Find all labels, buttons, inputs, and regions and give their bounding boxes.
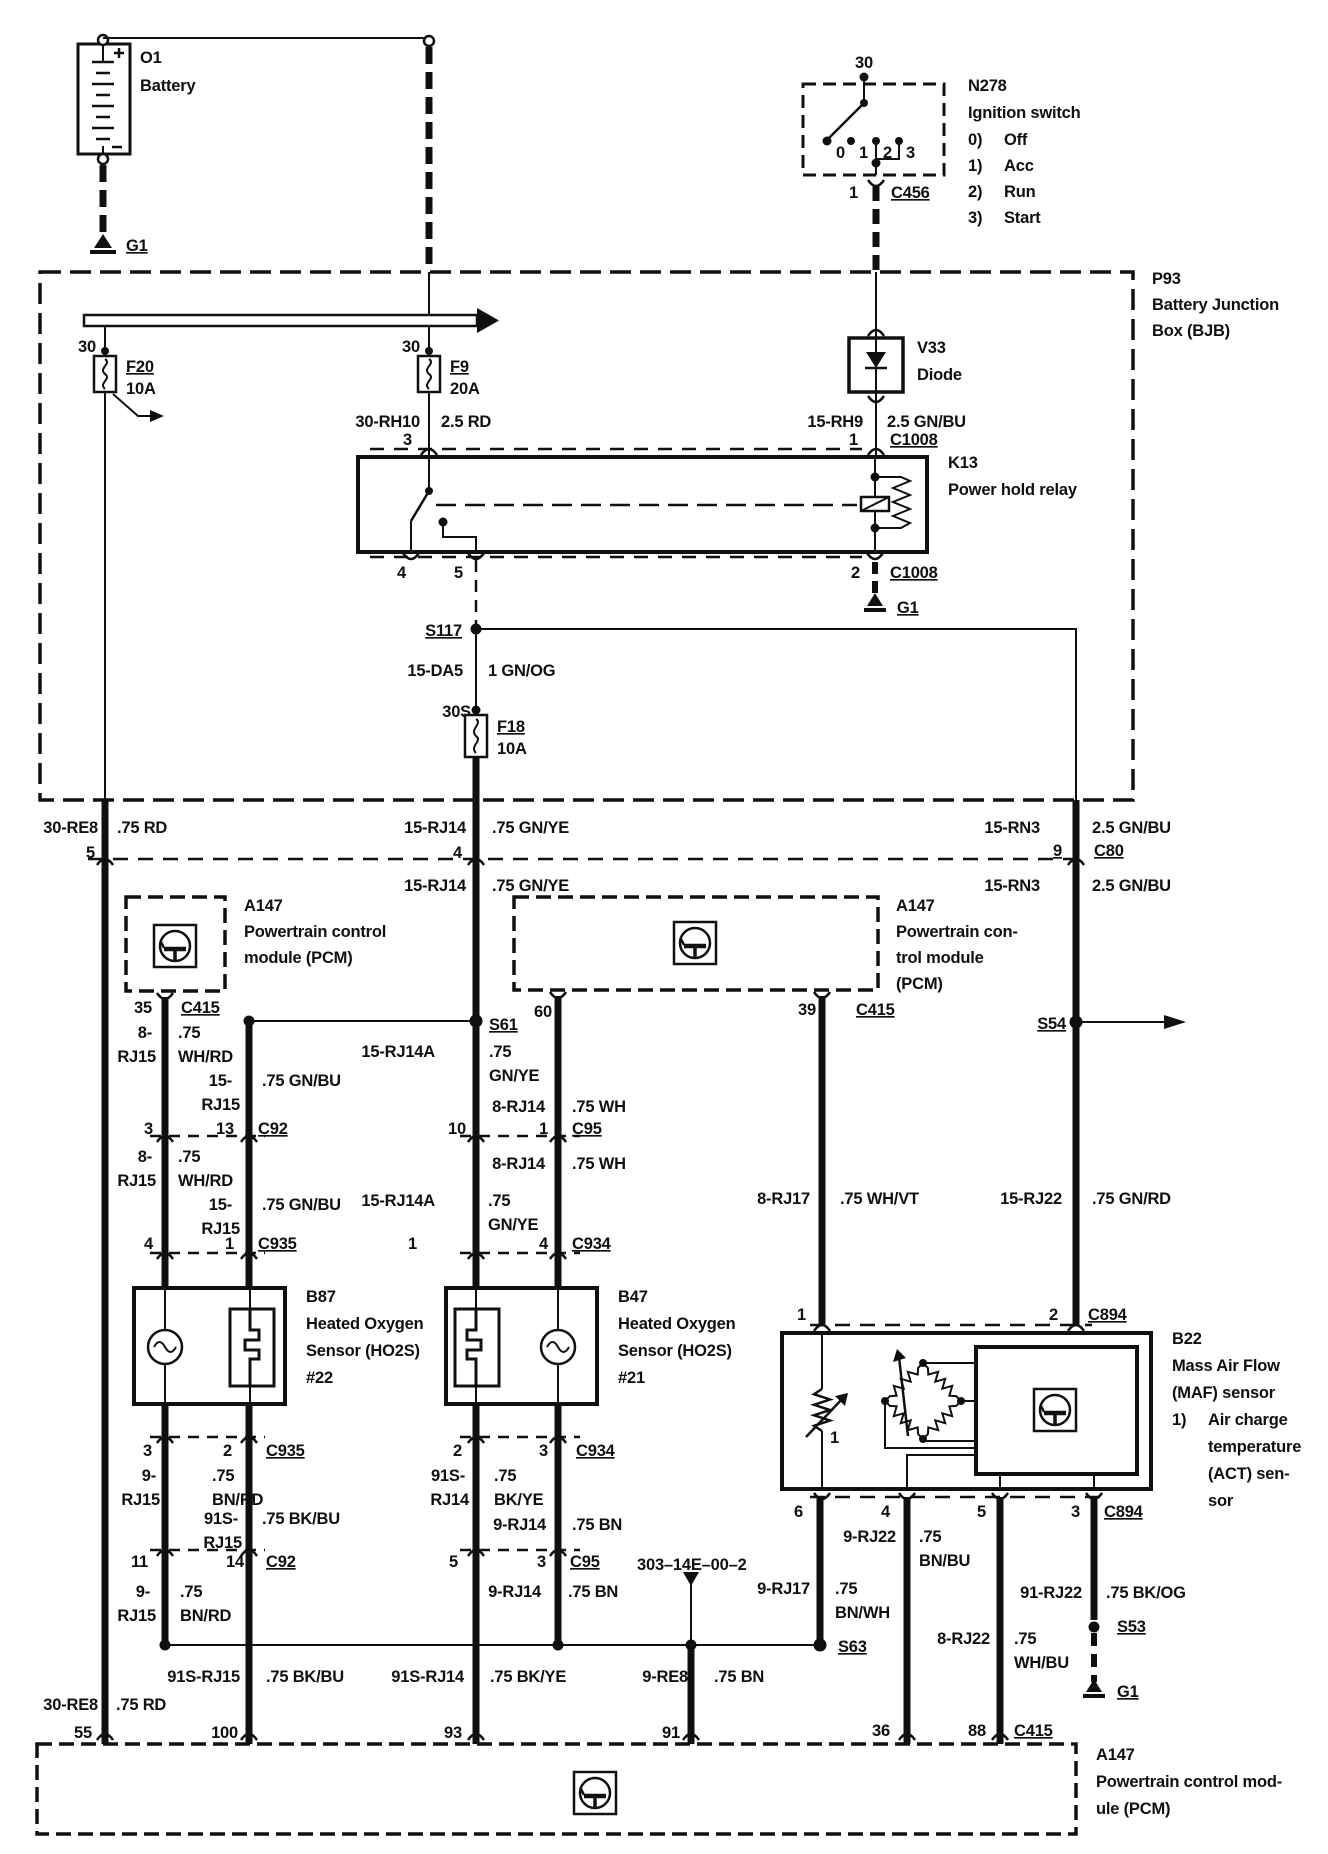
svg-text:BN/RD: BN/RD	[212, 1491, 264, 1509]
svg-text:C934: C934	[576, 1442, 616, 1460]
fuse F18	[465, 715, 487, 757]
svg-text:3: 3	[143, 1442, 152, 1460]
svg-text:.75: .75	[1014, 1630, 1036, 1648]
svg-text:N278: N278	[968, 77, 1007, 95]
wire 8-RJ15 .75 WH/RD	[162, 997, 169, 1288]
svg-text:.75: .75	[180, 1583, 202, 1601]
svg-text:A147: A147	[1096, 1746, 1135, 1764]
svg-text:WH/BU: WH/BU	[1014, 1654, 1069, 1672]
svg-text:C934: C934	[572, 1235, 612, 1253]
svg-text:35: 35	[134, 999, 152, 1017]
B87 AC source	[164, 1288, 166, 1331]
bridge resistors	[923, 1363, 961, 1401]
PCM A147 box 1	[126, 897, 225, 991]
svg-text:1: 1	[830, 1429, 839, 1447]
svg-text:WH/RD: WH/RD	[178, 1172, 233, 1190]
node 30S	[472, 706, 481, 715]
svg-text:1): 1)	[1172, 1411, 1186, 1429]
svg-text:3: 3	[539, 1442, 548, 1460]
svg-text:(ACT) sen-: (ACT) sen-	[1208, 1465, 1289, 1483]
svg-text:91S-: 91S-	[204, 1510, 238, 1528]
svg-text:2.5 GN/BU: 2.5 GN/BU	[1092, 877, 1171, 895]
wire 9-RJ17 .75 BN/WH	[817, 1497, 824, 1645]
svg-text:#21: #21	[618, 1369, 645, 1387]
wire F18 down	[473, 757, 480, 800]
svg-text:8-RJ22: 8-RJ22	[937, 1630, 990, 1648]
wire S117 to right	[476, 629, 1076, 800]
svg-text:.75 BK/YE: .75 BK/YE	[490, 1668, 566, 1686]
ground G1 relay	[872, 562, 878, 596]
relay switch	[425, 487, 433, 495]
wire 30-RH10 2.5 RD	[428, 392, 430, 457]
svg-text:20A: 20A	[450, 380, 480, 398]
splice S117	[471, 624, 482, 635]
relay coil	[874, 457, 876, 552]
svg-text:C415: C415	[181, 999, 220, 1017]
svg-text:C1008: C1008	[890, 431, 938, 449]
svg-text:.75: .75	[212, 1467, 234, 1485]
svg-text:91: 91	[662, 1724, 680, 1742]
svg-text:30-RH10: 30-RH10	[355, 413, 420, 431]
ground G1 battery	[94, 234, 112, 248]
svg-text:8-RJ14: 8-RJ14	[492, 1098, 546, 1116]
svg-text:.75: .75	[488, 1192, 510, 1210]
HO2S sensor B47	[446, 1288, 597, 1404]
ignition switch N278	[803, 84, 944, 175]
svg-text:88: 88	[968, 1722, 986, 1740]
svg-text:9-RJ22: 9-RJ22	[843, 1528, 896, 1546]
svg-text:15-: 15-	[209, 1072, 232, 1090]
node fuse F9 top	[428, 326, 430, 356]
svg-text:S54: S54	[1037, 1015, 1067, 1033]
svg-text:RJ14: RJ14	[430, 1491, 470, 1509]
svg-text:0): 0)	[968, 131, 982, 149]
svg-text:91S-: 91S-	[431, 1467, 465, 1485]
svg-text:C894: C894	[1088, 1306, 1128, 1324]
battery O1	[78, 35, 130, 164]
svg-text:30: 30	[402, 338, 420, 356]
svg-text:.75 BN: .75 BN	[572, 1516, 622, 1534]
svg-text:B47: B47	[618, 1288, 648, 1306]
svg-text:91S-RJ14: 91S-RJ14	[391, 1668, 465, 1686]
svg-text:6: 6	[794, 1503, 803, 1521]
svg-text:4: 4	[539, 1235, 549, 1253]
svg-text:.75 WH/VT: .75 WH/VT	[840, 1190, 919, 1208]
svg-text:1: 1	[797, 1306, 806, 1324]
svg-text:C415: C415	[1014, 1722, 1053, 1740]
svg-text:.75: .75	[178, 1148, 200, 1166]
svg-text:15-RN3: 15-RN3	[984, 877, 1040, 895]
svg-text:S61: S61	[489, 1016, 518, 1034]
svg-text:.75 GN/BU: .75 GN/BU	[262, 1196, 341, 1214]
svg-text:15-RH9: 15-RH9	[807, 413, 863, 431]
svg-text:0: 0	[836, 144, 845, 162]
svg-text:4: 4	[144, 1235, 154, 1253]
wire battery negative down	[100, 165, 107, 240]
svg-text:2: 2	[223, 1442, 232, 1460]
svg-text:9-RJ14: 9-RJ14	[493, 1516, 547, 1534]
svg-text:.75 WH: .75 WH	[572, 1155, 626, 1173]
svg-text:15-RJ22: 15-RJ22	[1000, 1190, 1062, 1208]
wire S53 to ground	[1091, 1633, 1097, 1682]
svg-text:C95: C95	[570, 1553, 600, 1571]
svg-text:15-RJ14A: 15-RJ14A	[361, 1192, 435, 1210]
connector C456 pin 1	[868, 180, 884, 186]
fuse F9	[418, 356, 440, 392]
svg-text:C415: C415	[856, 1001, 895, 1019]
wire 8-RJ22 .75 WH/BU	[997, 1497, 1004, 1744]
MAF pin4 link	[907, 1455, 976, 1489]
svg-text:BN/BU: BN/BU	[919, 1552, 970, 1570]
svg-text:.75 BK/BU: .75 BK/BU	[266, 1668, 344, 1686]
svg-text:RJ15: RJ15	[121, 1491, 160, 1509]
svg-text:Off: Off	[1004, 131, 1028, 149]
svg-text:Ignition switch: Ignition switch	[968, 104, 1081, 122]
svg-text:Sensor (HO2S): Sensor (HO2S)	[618, 1342, 732, 1360]
svg-text:C1008: C1008	[890, 564, 938, 582]
svg-text:Battery Junction: Battery Junction	[1152, 296, 1279, 314]
svg-text:8-: 8-	[138, 1024, 152, 1042]
svg-text:trol module: trol module	[896, 949, 984, 967]
svg-text:36: 36	[872, 1722, 890, 1740]
svg-text:9-RJ14: 9-RJ14	[488, 1583, 542, 1601]
svg-text:30: 30	[855, 54, 873, 72]
svg-text:O1: O1	[140, 49, 162, 67]
svg-text:100: 100	[211, 1724, 238, 1742]
svg-text:4: 4	[881, 1503, 891, 1521]
svg-text:15-DA5: 15-DA5	[407, 662, 463, 680]
svg-text:10A: 10A	[497, 740, 527, 758]
svg-text:5: 5	[454, 564, 463, 582]
svg-text:Powertrain con-: Powertrain con-	[896, 923, 1018, 941]
svg-text:2.5 GN/BU: 2.5 GN/BU	[1092, 819, 1171, 837]
svg-text:.75 BK/BU: .75 BK/BU	[262, 1510, 340, 1528]
wire 15-RJ15 .75 GN/BU	[246, 1021, 253, 1288]
svg-text:55: 55	[74, 1724, 92, 1742]
svg-text:C935: C935	[266, 1442, 305, 1460]
svg-text:B87: B87	[306, 1288, 336, 1306]
svg-text:303–14E–00–2: 303–14E–00–2	[637, 1556, 747, 1574]
PCM2 pin 39 C415	[814, 992, 830, 998]
svg-text:3): 3)	[968, 209, 982, 227]
svg-text:.75 GN/YE: .75 GN/YE	[492, 877, 569, 895]
PCM2 pin 60	[550, 992, 566, 998]
svg-text:8-RJ14: 8-RJ14	[492, 1155, 546, 1173]
svg-text:RJ15: RJ15	[117, 1607, 156, 1625]
svg-text:15-RN3: 15-RN3	[984, 819, 1040, 837]
svg-text:Sensor (HO2S): Sensor (HO2S)	[306, 1342, 420, 1360]
connector C80 row	[88, 858, 1085, 861]
wire 9-RE8 .75 BN	[688, 1645, 695, 1744]
svg-text:Acc: Acc	[1004, 157, 1034, 175]
MAF connector C894 bottom	[810, 1496, 1110, 1499]
svg-text:3: 3	[1071, 1503, 1080, 1521]
diode V33	[849, 338, 903, 392]
svg-text:BN/RD: BN/RD	[180, 1607, 232, 1625]
svg-text:Battery: Battery	[140, 77, 196, 95]
fuse F20	[94, 356, 116, 392]
svg-text:15-RJ14: 15-RJ14	[404, 819, 467, 837]
svg-text:Powertrain control: Powertrain control	[244, 923, 386, 941]
svg-text:C92: C92	[266, 1553, 296, 1571]
svg-text:10A: 10A	[126, 380, 156, 398]
svg-text:.75 BN: .75 BN	[568, 1583, 618, 1601]
svg-text:1: 1	[849, 184, 858, 202]
PCM1 pin 35 C415	[157, 993, 173, 999]
svg-text:9-RJ17: 9-RJ17	[757, 1580, 810, 1598]
wire 15-RH9 2.5 GN/BU	[875, 392, 877, 457]
svg-text:.75: .75	[489, 1043, 511, 1061]
svg-text:Heated Oxygen: Heated Oxygen	[618, 1315, 736, 1333]
svg-text:2: 2	[453, 1442, 462, 1460]
svg-text:BN/WH: BN/WH	[835, 1604, 890, 1622]
svg-text:.75 WH: .75 WH	[572, 1098, 626, 1116]
svg-text:RJ15: RJ15	[117, 1048, 156, 1066]
wire ignition to BJB	[873, 186, 880, 272]
wire 91-RJ22 .75 BK/OG	[1091, 1497, 1098, 1620]
svg-text:ule (PCM): ule (PCM)	[1096, 1800, 1170, 1818]
wire 9-RJ22 .75 BN/BU	[904, 1497, 911, 1744]
svg-text:9: 9	[1053, 842, 1062, 860]
svg-text:9-RE8: 9-RE8	[642, 1668, 688, 1686]
svg-text:.75: .75	[494, 1467, 516, 1485]
svg-text:2): 2)	[968, 183, 982, 201]
splice junction to S61	[244, 1016, 255, 1027]
svg-text:2: 2	[1049, 1306, 1058, 1324]
svg-text:4: 4	[453, 844, 463, 862]
svg-text:Start: Start	[1004, 209, 1041, 227]
svg-text:C894: C894	[1104, 1503, 1144, 1521]
svg-text:Heated Oxygen: Heated Oxygen	[306, 1315, 424, 1333]
svg-text:RJ15: RJ15	[201, 1096, 240, 1114]
wire battery feed down to BJB (dashed thick)	[426, 47, 433, 272]
ACT variable resistor	[821, 1333, 823, 1389]
svg-text:1: 1	[859, 144, 868, 162]
bus bar	[428, 272, 430, 315]
svg-text:F18: F18	[497, 718, 525, 736]
splice S61	[470, 1015, 483, 1028]
svg-text:sor: sor	[1208, 1492, 1234, 1510]
svg-text:Air charge: Air charge	[1208, 1411, 1288, 1429]
bridge connections	[923, 1362, 976, 1364]
wire 8-RJ14 .75 WH	[555, 996, 562, 1288]
svg-text:V33: V33	[917, 339, 946, 357]
svg-text:(MAF) sensor: (MAF) sensor	[1172, 1384, 1276, 1402]
wire 8-RJ17 .75 WH/VT	[819, 996, 826, 1325]
svg-text:1: 1	[225, 1235, 234, 1253]
relay linkage (dashed)	[436, 504, 857, 507]
svg-text:Diode: Diode	[917, 366, 962, 384]
splice S63 line	[165, 1644, 820, 1646]
svg-text:K13: K13	[948, 454, 978, 472]
svg-text:30-RE8: 30-RE8	[43, 819, 98, 837]
svg-text:15-: 15-	[209, 1196, 232, 1214]
PCM A147 box 3	[37, 1744, 1076, 1834]
svg-text:BK/YE: BK/YE	[494, 1491, 544, 1509]
splice S53	[1089, 1622, 1100, 1633]
svg-text:30: 30	[78, 338, 96, 356]
svg-text:A147: A147	[896, 897, 935, 915]
svg-text:F9: F9	[450, 358, 469, 376]
svg-text:14: 14	[226, 1553, 245, 1571]
svg-text:9-: 9-	[136, 1583, 150, 1601]
node fuse F20 top	[104, 326, 106, 356]
svg-text:15-RJ14A: 15-RJ14A	[361, 1043, 435, 1061]
svg-text:3: 3	[403, 431, 412, 449]
svg-text:2: 2	[851, 564, 860, 582]
svg-text:C80: C80	[1094, 842, 1124, 860]
svg-text:.75: .75	[919, 1528, 941, 1546]
svg-text:91-RJ22: 91-RJ22	[1020, 1584, 1082, 1602]
relay K13 power hold relay	[358, 457, 927, 552]
svg-text:Run: Run	[1004, 183, 1036, 201]
PCM A147 box 2	[514, 897, 878, 990]
svg-text:9-: 9-	[142, 1467, 156, 1485]
wire 15-RJ14 .75 GN/YE center main	[473, 800, 480, 1288]
svg-text:A147: A147	[244, 897, 283, 915]
battery junction box P93	[40, 272, 1133, 800]
svg-text:F20: F20	[126, 358, 154, 376]
arrow off F20	[113, 394, 152, 416]
svg-text:5: 5	[449, 1553, 458, 1571]
splice S54	[1070, 1016, 1083, 1029]
svg-text:1: 1	[408, 1235, 417, 1253]
svg-text:5: 5	[977, 1503, 986, 1521]
svg-text:C456: C456	[891, 184, 930, 202]
svg-text:11: 11	[131, 1553, 148, 1571]
wire 30-RE8 .75 RD left main	[102, 800, 109, 1744]
svg-text:.75 RD: .75 RD	[117, 819, 167, 837]
svg-text:.75 GN/RD: .75 GN/RD	[1092, 1190, 1171, 1208]
connector C934 lower	[460, 1436, 580, 1439]
svg-text:3: 3	[537, 1553, 546, 1571]
connector C95 lower	[460, 1549, 580, 1552]
svg-text:Box (BJB): Box (BJB)	[1152, 322, 1230, 340]
svg-text:WH/RD: WH/RD	[178, 1048, 233, 1066]
svg-text:.75 BN: .75 BN	[714, 1668, 764, 1686]
svg-text:RJ15: RJ15	[117, 1172, 156, 1190]
svg-text:GN/YE: GN/YE	[489, 1067, 540, 1085]
wire 15-RN3 2.5 GN/BU right main	[1073, 800, 1080, 1325]
B87 heater	[249, 1288, 251, 1309]
svg-text:39: 39	[798, 1001, 816, 1019]
svg-text:2.5 GN/BU: 2.5 GN/BU	[887, 413, 966, 431]
svg-text:G1: G1	[897, 599, 919, 617]
svg-text:60: 60	[534, 1003, 552, 1021]
wire to diode	[875, 272, 877, 338]
MAF sensor B22 box	[782, 1333, 1151, 1489]
svg-text:1): 1)	[968, 157, 982, 175]
svg-text:Mass Air Flow: Mass Air Flow	[1172, 1357, 1280, 1375]
HO2S sensor B87	[134, 1288, 285, 1404]
svg-text:1 GN/OG: 1 GN/OG	[488, 662, 555, 680]
relay pins 4,5,2 with connector C1008 bottom	[370, 556, 862, 559]
MAF inner module box	[976, 1347, 1137, 1474]
svg-text:module (PCM): module (PCM)	[244, 949, 353, 967]
svg-text:Powertrain control mod-: Powertrain control mod-	[1096, 1773, 1282, 1791]
svg-text:G1: G1	[126, 237, 148, 255]
svg-text:B22: B22	[1172, 1330, 1202, 1348]
svg-text:4: 4	[397, 564, 407, 582]
svg-text:Power hold relay: Power hold relay	[948, 481, 1078, 499]
svg-text:.75 BK/OG: .75 BK/OG	[1106, 1584, 1186, 1602]
wire 15-DA5 1 GN/OG	[475, 629, 477, 715]
svg-text:3: 3	[906, 144, 915, 162]
B47 heater	[475, 1288, 477, 1309]
connector C935 lower	[150, 1436, 265, 1439]
svg-text:15-RJ14: 15-RJ14	[404, 877, 467, 895]
svg-text:.75 GN/BU: .75 GN/BU	[262, 1072, 341, 1090]
svg-text:8-: 8-	[138, 1148, 152, 1166]
svg-text:S117: S117	[425, 622, 462, 640]
svg-text:C935: C935	[258, 1235, 297, 1253]
svg-text:RJ15: RJ15	[201, 1220, 240, 1238]
svg-text:.75 RD: .75 RD	[116, 1696, 166, 1714]
svg-text:S53: S53	[1117, 1618, 1146, 1636]
svg-text:8-RJ17: 8-RJ17	[757, 1190, 810, 1208]
svg-text:1: 1	[849, 431, 858, 449]
B47 AC source	[557, 1288, 559, 1331]
svg-text:.75 GN/YE: .75 GN/YE	[492, 819, 569, 837]
svg-text:S63: S63	[838, 1638, 867, 1656]
svg-text:G1: G1	[1117, 1683, 1139, 1701]
svg-text:93: 93	[444, 1724, 462, 1742]
connector C92 lower	[150, 1549, 265, 1552]
svg-text:GN/YE: GN/YE	[488, 1216, 539, 1234]
wire battery positive to right	[103, 37, 429, 39]
svg-text:2.5 RD: 2.5 RD	[441, 413, 491, 431]
svg-text:.75: .75	[835, 1580, 857, 1598]
svg-text:(PCM): (PCM)	[896, 975, 943, 993]
PCM3 pins	[97, 1734, 113, 1740]
wire relay pin5 to S117	[475, 560, 478, 629]
svg-text:P93: P93	[1152, 270, 1181, 288]
svg-text:C92: C92	[258, 1120, 288, 1138]
svg-text:91S-RJ15: 91S-RJ15	[167, 1668, 240, 1686]
svg-text:.75: .75	[178, 1024, 200, 1042]
svg-text:#22: #22	[306, 1369, 333, 1387]
ground G1 S53	[1086, 1679, 1102, 1692]
svg-text:30-RE8: 30-RE8	[43, 1696, 98, 1714]
svg-text:temperature: temperature	[1208, 1438, 1301, 1456]
wire 30-RE8 inside BJB	[104, 392, 106, 800]
